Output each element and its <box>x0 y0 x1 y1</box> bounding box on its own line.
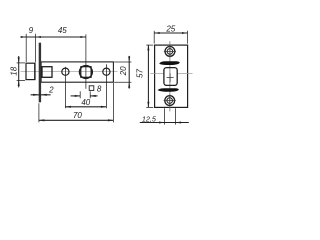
dimension 25 <box>154 31 187 44</box>
extension line bevel <box>34 34 36 62</box>
spindle hub circle <box>80 66 93 79</box>
dimension 12,5 <box>140 108 189 124</box>
C3 vertical centerline / extension <box>105 64 107 108</box>
svg-text:57: 57 <box>136 69 145 78</box>
svg-text:9: 9 <box>29 26 34 35</box>
lower dark lens <box>158 88 179 92</box>
svg-text:40: 40 <box>81 98 90 107</box>
bottom screw hole outer <box>165 96 175 106</box>
faceplate side view <box>39 43 41 103</box>
dimension 40 <box>65 106 106 108</box>
svg-text:45: 45 <box>58 26 67 35</box>
dimension 70 <box>39 83 114 122</box>
horizontal centerline right view <box>150 72 163 74</box>
bottom screw hole crosshair <box>164 100 176 102</box>
arrow tip 85.9 right <box>80 36 86 38</box>
svg-text:70: 70 <box>73 111 82 120</box>
wire horizontal centerline left view <box>21 71 118 73</box>
top screw hole outer <box>165 47 175 57</box>
spindle square hole <box>81 67 91 78</box>
bolt cutout center mark <box>167 76 174 78</box>
label square8 <box>89 86 94 91</box>
svg-text:18: 18 <box>9 66 18 75</box>
arrow tip 26.2 right <box>21 36 27 38</box>
extension line bolt tip <box>25 34 27 62</box>
bolt cutout rounded rect <box>164 68 177 86</box>
svg-text:25: 25 <box>165 25 175 34</box>
svg-text:20: 20 <box>119 66 128 76</box>
latch body case <box>41 62 113 82</box>
bolt bevel line <box>34 63 36 79</box>
svg-text:2: 2 <box>48 85 54 94</box>
bolt tail inside case <box>42 67 52 78</box>
svg-text:12,5: 12,5 <box>142 114 157 123</box>
C1 vertical centerline / extension <box>64 67 66 108</box>
top screw hole crosshair <box>164 50 176 52</box>
RIGHT VIEW <box>150 41 192 111</box>
dimension 9 and 45 line <box>21 34 86 62</box>
bottom screw hole inner <box>167 98 173 104</box>
top screw hole inner <box>167 49 173 55</box>
arrow tip 35.4 left <box>35 36 41 38</box>
hole C3 <box>103 68 110 75</box>
spindle vertical centerline <box>85 34 87 88</box>
extension faceplate bottom <box>38 103 40 122</box>
extension body right bottom <box>112 83 114 122</box>
dimension 2 <box>31 94 51 96</box>
faceplate front view <box>155 45 188 107</box>
dimension 20 <box>114 56 131 89</box>
hole C1 <box>62 68 69 75</box>
vertical centerline right view <box>169 41 171 111</box>
dimension 57 <box>146 45 153 108</box>
svg-text:8: 8 <box>97 85 102 94</box>
upper dark lens <box>159 61 180 65</box>
dimension 18 <box>17 56 25 87</box>
latch bolt head <box>26 63 35 79</box>
dimension square 8 <box>71 91 98 98</box>
